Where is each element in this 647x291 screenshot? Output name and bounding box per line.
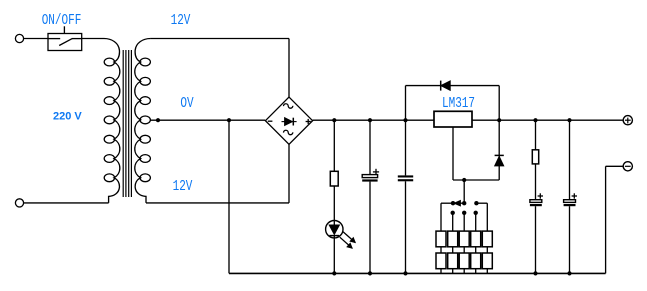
svg-text:12V: 12V	[171, 12, 191, 29]
svg-text:12V: 12V	[173, 178, 193, 195]
svg-text:OV: OV	[180, 95, 193, 112]
svg-text:220 V: 220 V	[53, 111, 82, 123]
svg-text:ON/OFF: ON/OFF	[42, 12, 82, 29]
svg-text:LM317: LM317	[442, 95, 475, 112]
